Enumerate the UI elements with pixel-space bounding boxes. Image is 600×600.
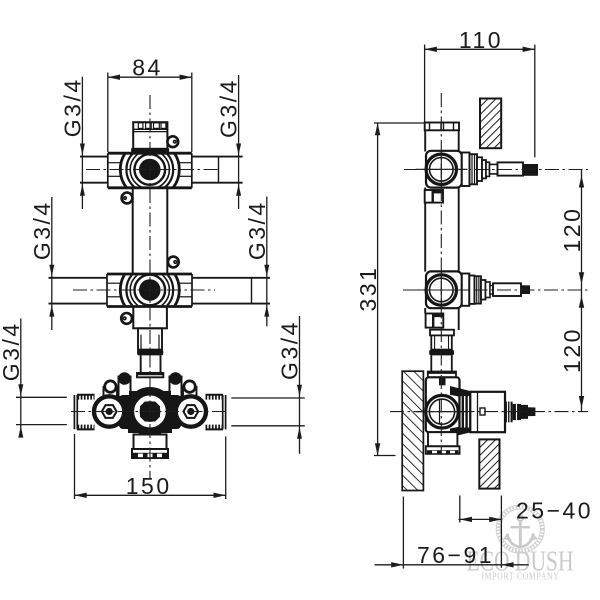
watermark anchor	[505, 516, 537, 547]
front middle valve ear top-right	[168, 257, 179, 268]
front bottom valve right pipe knurled	[206, 395, 226, 430]
front neck below middle valve	[133, 307, 167, 350]
side view centerline vertical	[440, 93, 442, 455]
front top valve ear bottom-left	[122, 193, 133, 204]
side bottom valve circle	[416, 395, 468, 428]
side view centerline bottom valve horizontal	[390, 411, 588, 413]
svg-text:25−40: 25−40	[516, 497, 593, 523]
side neck below middle valve	[430, 330, 454, 350]
svg-text:84: 84	[132, 55, 163, 81]
svg-text:G3/4: G3/4	[59, 77, 85, 137]
front top valve cap ear right	[167, 136, 178, 147]
svg-text:G3/4: G3/4	[216, 78, 242, 138]
front bottom valve tower caps dark	[118, 372, 131, 385]
side bottom valve spindle dark cone	[521, 405, 535, 419]
side view centerline middle valve horizontal	[403, 289, 588, 291]
svg-text:120: 120	[559, 207, 585, 253]
front bottom valve hex housing left	[94, 396, 124, 426]
front tube to bottom valve	[137, 355, 163, 377]
side wall hatched section bottom left	[402, 371, 423, 490]
side bottom valve body	[426, 377, 471, 437]
G3/4 callout middle-right	[244, 197, 270, 327]
svg-text:G3/4: G3/4	[0, 321, 24, 381]
side top valve mounting tab	[425, 190, 443, 203]
dimension 25-40	[459, 496, 502, 568]
svg-text:G3/4: G3/4	[277, 320, 303, 380]
dimension 84	[108, 73, 192, 153]
side middle valve circle	[416, 272, 468, 308]
side top valve circle	[416, 152, 468, 188]
svg-text:76−91: 76−91	[417, 542, 494, 568]
dimension 120 lower	[581, 290, 583, 412]
dimension 331	[374, 123, 425, 456]
dimension 120 upper	[581, 170, 583, 291]
G3/4 extension lines bottom-right	[231, 398, 304, 426]
front middle valve right pipe with extension	[192, 278, 270, 304]
front view centerline middle valve horizontal	[73, 289, 215, 291]
front view centerline vertical	[149, 95, 151, 479]
side middle valve cartridge dark tip	[521, 285, 530, 294]
front top valve left pipe	[80, 157, 108, 183]
dimension 110	[425, 45, 535, 158]
front bottom valve outer ear towers	[104, 387, 197, 397]
front bottom valve central ring	[130, 391, 170, 431]
G3/4 callout bottom-left	[0, 319, 24, 438]
side middle valve square	[426, 271, 462, 308]
side bottom valve cartridge block	[470, 392, 505, 432]
side view body tube	[425, 130, 459, 330]
svg-text:G3/4: G3/4	[244, 200, 270, 260]
front bottom valve left pipe knurled	[74, 395, 94, 430]
dimension 150	[75, 434, 226, 499]
G3/4 extension lines bottom-left	[16, 397, 67, 424]
side wall hatched section bottom right	[479, 439, 499, 488]
G3/4 callout middle-left	[29, 197, 55, 330]
dimension 76-91	[375, 497, 529, 569]
side top valve cartridge dark tip	[523, 164, 538, 176]
side bottom valve knurled ring	[505, 402, 521, 423]
side bottom valve lower cap	[426, 432, 460, 454]
svg-text:G3/4: G3/4	[29, 200, 55, 260]
front view centerline top valve horizontal	[86, 169, 221, 171]
G3/4 callout bottom-right	[277, 316, 303, 454]
front bottom valve hex housing right	[176, 396, 206, 426]
side view top cap	[425, 123, 459, 131]
side middle valve mounting tab	[426, 314, 444, 328]
side top valve cartridge	[462, 153, 523, 187]
front top valve cap	[132, 122, 169, 152]
G3/4 callout top-left	[59, 77, 85, 209]
front coupling nut dark band	[137, 350, 163, 356]
side wall hatched section top	[480, 99, 501, 149]
side coupling nut dark band	[429, 350, 454, 356]
svg-text:IMPORT COMPANY: IMPORT COMPANY	[482, 572, 560, 583]
svg-text:150: 150	[126, 473, 172, 499]
front top valve body band	[108, 140, 192, 199]
front middle valve body band	[107, 261, 192, 320]
front bottom valve dark connector masses	[119, 391, 181, 433]
svg-text:331: 331	[355, 266, 381, 312]
side view centerline top valve horizontal	[404, 169, 588, 171]
front middle valve ear bottom-left	[121, 313, 132, 324]
svg-text:120: 120	[559, 327, 585, 373]
side tube to bottom valve	[428, 355, 456, 377]
front bottom valve towers	[119, 377, 182, 398]
front tube between top and middle valve	[133, 188, 168, 274]
side middle valve cartridge	[462, 274, 521, 306]
watermark emblem rope ring	[496, 505, 544, 553]
front bottom valve outer ears	[105, 381, 196, 392]
G3/4 callout top-right	[216, 75, 242, 209]
front top valve right pipe with extension	[192, 157, 243, 183]
svg-text:110: 110	[459, 27, 503, 53]
front view centerline bottom valve horizontal	[71, 411, 226, 413]
side top valve square	[426, 151, 462, 188]
side bottom valve connector	[460, 395, 471, 429]
front middle valve left pipe	[49, 278, 107, 304]
front bottom valve lower body	[132, 435, 168, 459]
